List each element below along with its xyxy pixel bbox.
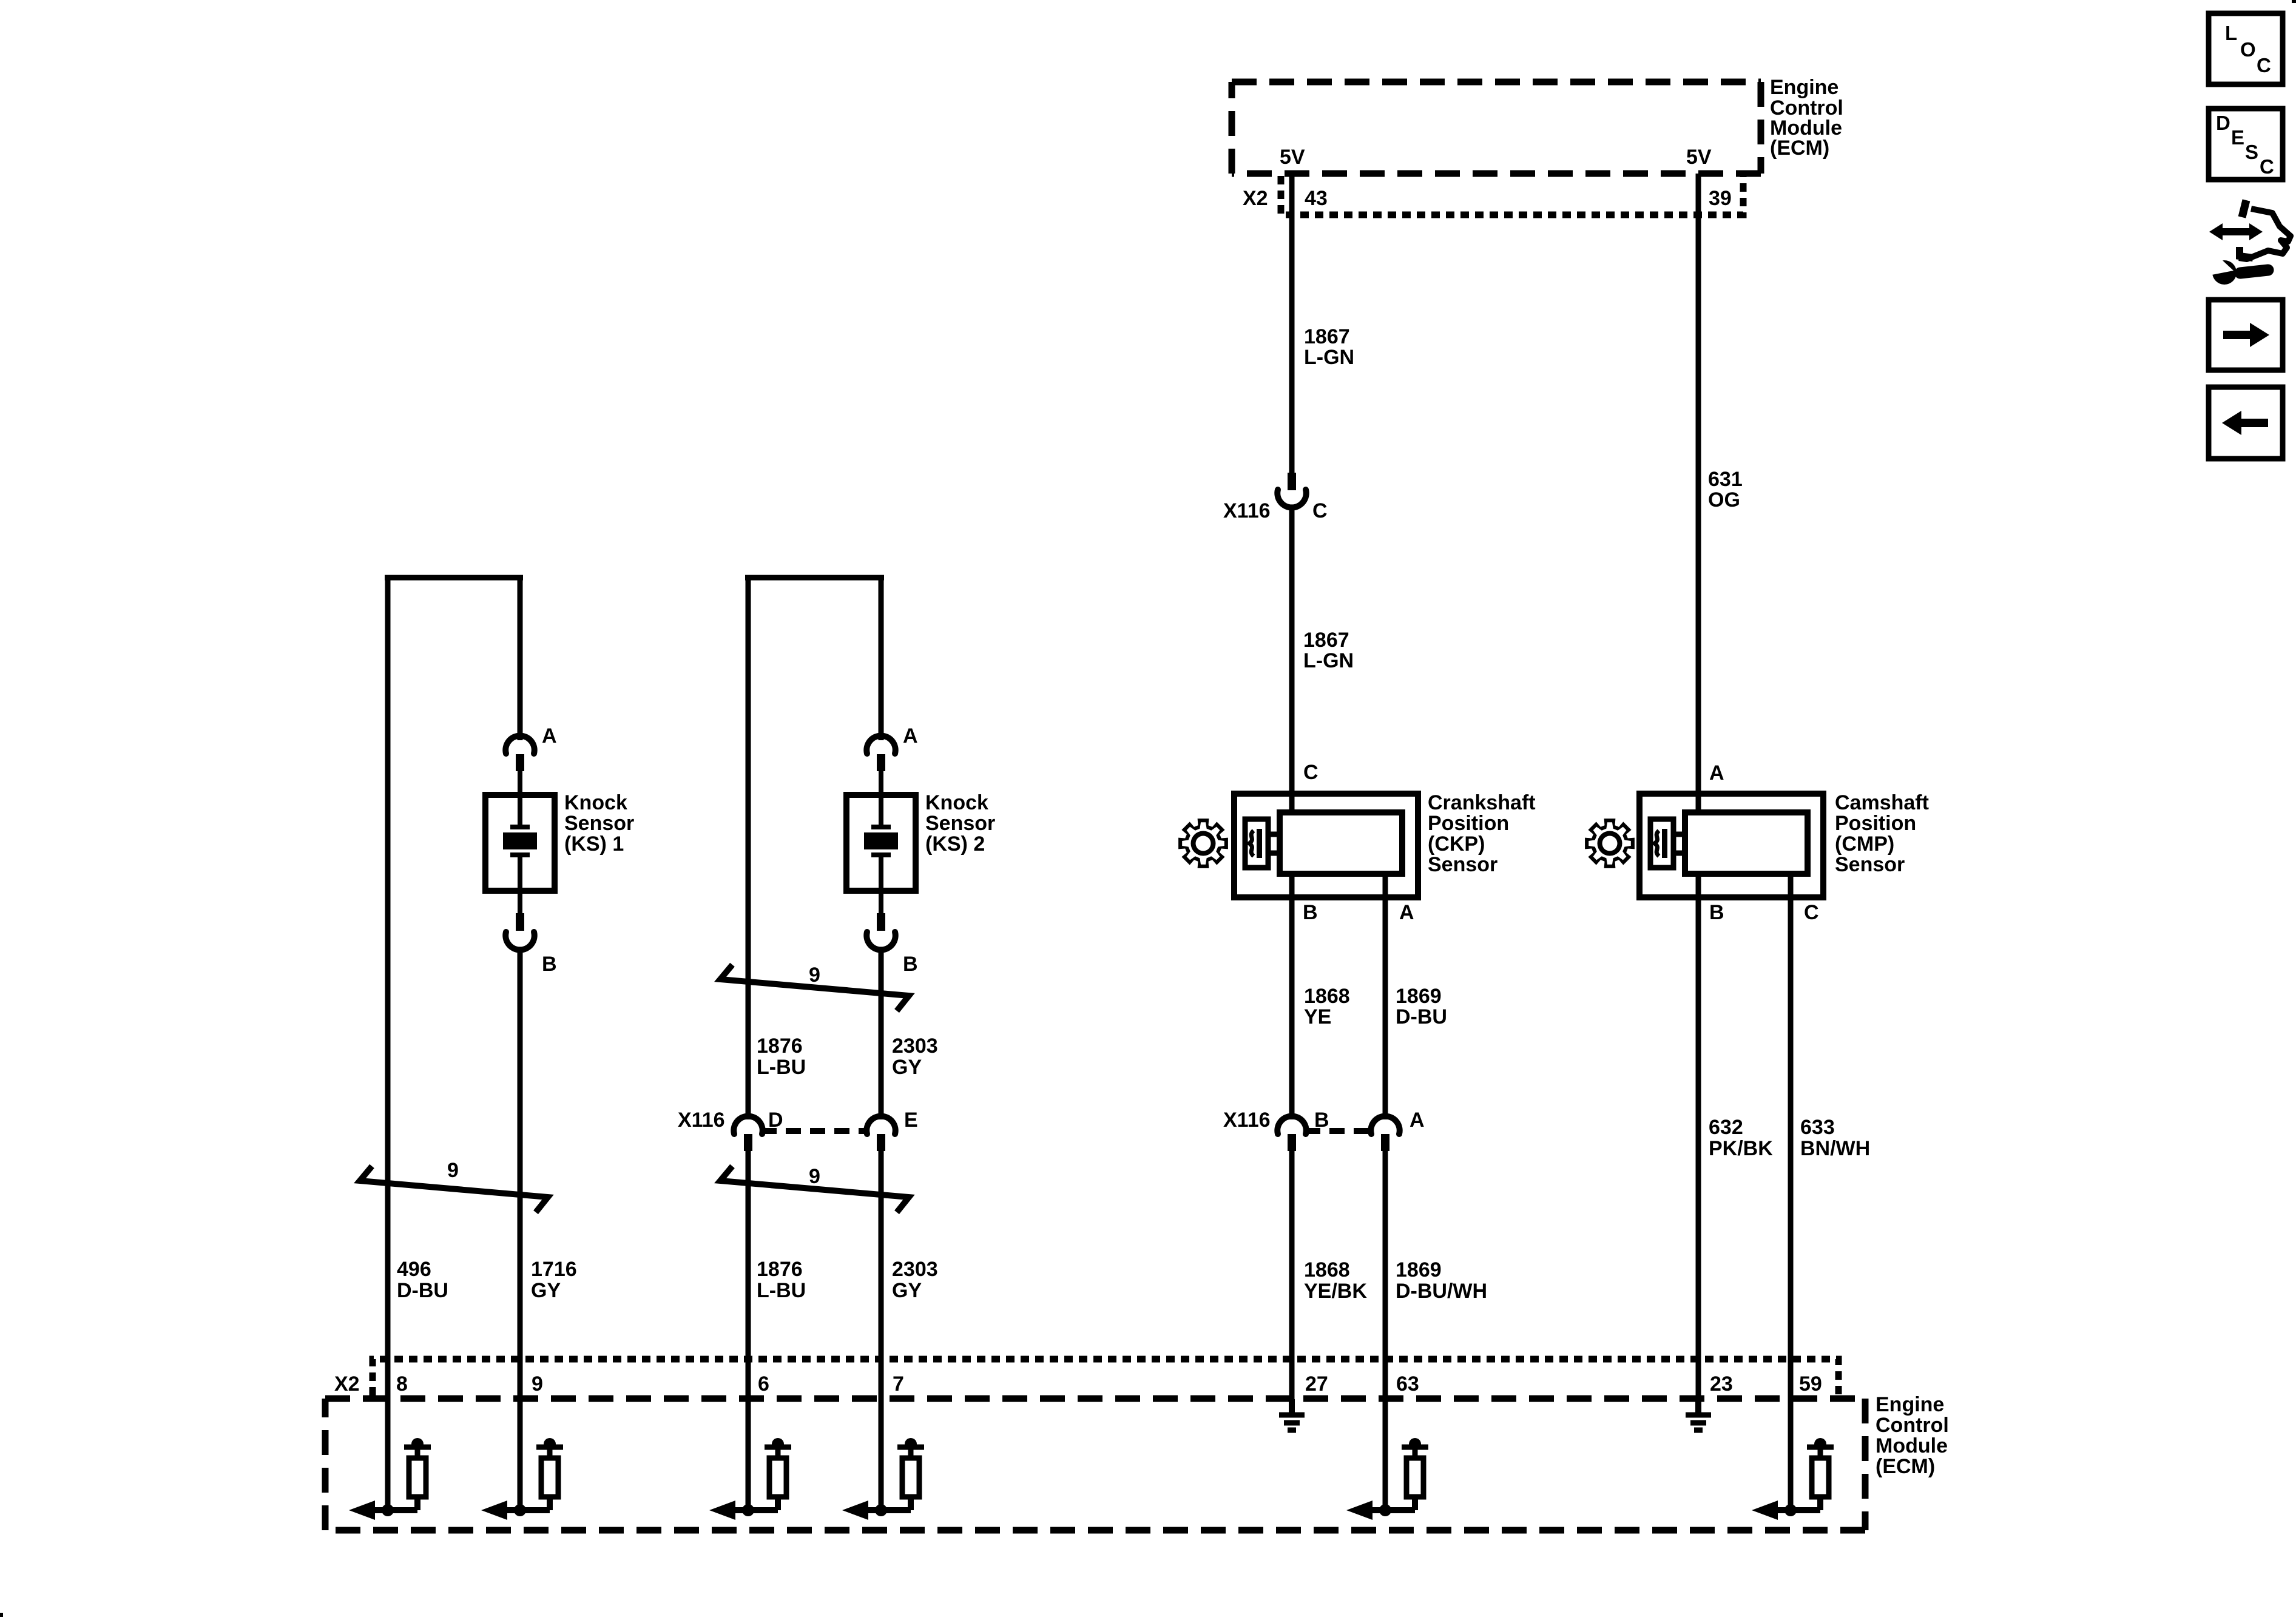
ECM internal resistor + signal arrow (pin 9)	[481, 1438, 563, 1520]
gear icon (CKP reluctor wheel)	[1178, 819, 1228, 868]
svg-text:496: 496	[397, 1258, 431, 1281]
svg-text:39: 39	[1709, 187, 1732, 210]
inline connector X116 pin D (male stub)	[744, 1134, 752, 1151]
knock sensor KS2	[846, 795, 916, 891]
label 2303 GY (lower)	[892, 1258, 938, 1302]
svg-text:E: E	[904, 1109, 918, 1132]
connector KS1 pin B (male stub)	[518, 891, 522, 913]
wire 632 PK/BK from CMP pin B to ECM pin 23	[1696, 874, 1701, 1399]
inline connector X116 pin C (male stub)	[1288, 473, 1296, 490]
svg-text:23: 23	[1710, 1372, 1733, 1396]
svg-text:1868: 1868	[1304, 1258, 1350, 1281]
ECM bottom dashed box (Engine Control Module)	[325, 1399, 1865, 1530]
wire 2303 GY from KS2 pin B	[879, 949, 884, 1119]
svg-text:Knock: Knock	[925, 791, 988, 814]
ground (ECM pin 23)	[1686, 1399, 1711, 1430]
wire into KS1	[518, 771, 522, 795]
svg-text:632: 632	[1709, 1116, 1743, 1139]
wire 631 OG from ECM pin 39 to CMP	[1696, 174, 1701, 812]
svg-text:C: C	[1312, 499, 1328, 522]
label Knock Sensor (KS) 2	[925, 791, 995, 856]
svg-text:X116: X116	[678, 1109, 725, 1132]
inline connector X116 pin E (male stub)	[877, 1134, 885, 1151]
svg-text:1867: 1867	[1304, 325, 1350, 348]
svg-text:1867: 1867	[1303, 629, 1349, 652]
svg-text:1869: 1869	[1396, 985, 1442, 1008]
svg-text:59: 59	[1799, 1372, 1822, 1396]
svg-text:Sensor: Sensor	[1428, 853, 1497, 876]
inline connector X116 pin B (male stub)	[1288, 1134, 1296, 1151]
wire KS2 loop right to pin A	[879, 578, 884, 740]
svg-text:5V: 5V	[1280, 146, 1305, 169]
wire 1869 D-BU/WH to ECM pin 63	[1383, 1151, 1388, 1510]
svg-text:Sensor: Sensor	[925, 812, 995, 835]
svg-text:(KS) 1: (KS) 1	[564, 832, 624, 856]
label 1716 GY	[531, 1258, 577, 1302]
label 1867 L-GN (lower)	[1303, 629, 1354, 672]
svg-text:B: B	[1314, 1109, 1329, 1132]
svg-text:9: 9	[532, 1372, 543, 1396]
inline connector X116 pin A (female dome)	[1371, 1116, 1399, 1134]
svg-text:6: 6	[758, 1372, 769, 1396]
svg-text:43: 43	[1305, 187, 1328, 210]
svg-text:Sensor: Sensor	[564, 812, 634, 835]
wire 1867 L-GN from X116 C to CKP sensor	[1289, 507, 1295, 812]
twisted pair symbol KS2 upper	[720, 965, 909, 1011]
svg-text:5V: 5V	[1686, 146, 1712, 169]
svg-text:1868: 1868	[1304, 985, 1350, 1008]
svg-text:L-BU: L-BU	[757, 1279, 806, 1302]
label 1868 YE/BK	[1304, 1258, 1367, 1303]
svg-text:1876: 1876	[757, 1035, 803, 1058]
connector X2 pin row (bottom)	[373, 1359, 1838, 1396]
corner mark bottom-left	[0, 1613, 3, 1617]
svg-text:Sensor: Sensor	[1835, 853, 1905, 876]
svg-text:27: 27	[1305, 1372, 1328, 1396]
inline connector X116 pin C (female cup)	[1277, 490, 1306, 507]
svg-text:YE: YE	[1304, 1005, 1331, 1028]
svg-text:D-BU/WH: D-BU/WH	[1396, 1280, 1487, 1303]
svg-text:E: E	[2231, 126, 2244, 149]
ECM internal resistor + signal arrow (pin 7)	[842, 1438, 924, 1520]
wire 1876 L-BU (KS2 loop left)	[746, 578, 751, 1119]
ECM internal resistor + signal arrow (pin 59)	[1752, 1438, 1834, 1520]
svg-text:YE/BK: YE/BK	[1304, 1280, 1367, 1303]
svg-text:1716: 1716	[531, 1258, 577, 1281]
svg-text:1869: 1869	[1396, 1258, 1442, 1281]
label 1869 D-BU/WH	[1396, 1258, 1487, 1303]
svg-text:S: S	[2245, 141, 2258, 163]
knock sensor KS1	[485, 795, 555, 891]
icon hand/adjust with wrench	[2209, 200, 2291, 285]
svg-text:1876: 1876	[757, 1258, 803, 1281]
label 1867 L-GN (upper)	[1304, 325, 1354, 369]
label 1876 L-BU (upper)	[757, 1035, 806, 1079]
wire KS1 loop right to pin A	[518, 578, 523, 740]
inline connector X116 pin D (female dome)	[734, 1116, 762, 1134]
svg-text:Module: Module	[1876, 1434, 1948, 1457]
connector X116 dashed link B-A	[1305, 1128, 1372, 1134]
svg-text:Crankshaft: Crankshaft	[1428, 791, 1536, 814]
icon box DESC	[2209, 109, 2283, 180]
svg-text:(CMP): (CMP)	[1835, 832, 1894, 856]
svg-text:X116: X116	[1223, 499, 1271, 522]
twisted pair symbol KS2 lower	[720, 1166, 909, 1212]
svg-text:Position: Position	[1428, 812, 1509, 835]
ECM top dashed box (Engine Control Module)	[1232, 82, 1761, 174]
svg-text:B: B	[1709, 901, 1724, 924]
label Knock Sensor (KS) 1	[564, 791, 634, 856]
svg-text:(ECM): (ECM)	[1876, 1455, 1935, 1478]
svg-text:8: 8	[396, 1372, 408, 1396]
svg-text:X116: X116	[1223, 1109, 1271, 1132]
svg-text:633: 633	[1800, 1116, 1835, 1139]
svg-text:D-BU: D-BU	[397, 1279, 448, 1302]
ECM internal resistor + signal arrow (pin 8)	[349, 1438, 431, 1520]
svg-text:L-GN: L-GN	[1303, 649, 1354, 672]
corner mark top-right	[2292, 0, 2296, 3]
connector X116 dashed link D-E	[761, 1128, 868, 1134]
svg-text:7: 7	[893, 1372, 904, 1396]
svg-text:A: A	[542, 724, 557, 748]
connector X2 pin row (top)	[1281, 176, 1743, 215]
svg-text:GY: GY	[531, 1279, 561, 1302]
svg-text:Camshaft: Camshaft	[1835, 791, 1929, 814]
svg-text:D-BU: D-BU	[1396, 1005, 1447, 1028]
inline connector X116 pin E (female dome)	[866, 1116, 895, 1134]
svg-text:D: D	[768, 1109, 783, 1132]
label 1868 YE	[1304, 985, 1350, 1028]
label Engine Control Module (ECM) top	[1770, 76, 1843, 160]
inline connector X116 pin B (female dome)	[1277, 1116, 1306, 1134]
twisted pair symbol KS1	[360, 1166, 548, 1212]
connector KS1 pin A (female dome)	[505, 736, 534, 754]
svg-text:9: 9	[809, 964, 820, 987]
wire 1868 YE/BK to ECM pin 27	[1289, 1151, 1295, 1399]
svg-text:GY: GY	[892, 1279, 922, 1302]
svg-text:L-GN: L-GN	[1304, 346, 1354, 369]
svg-text:Position: Position	[1835, 812, 1916, 835]
svg-text:631: 631	[1708, 468, 1743, 491]
connector KS1 pin B (female cup)	[505, 932, 534, 950]
svg-text:9: 9	[447, 1159, 459, 1182]
svg-text:Knock: Knock	[564, 791, 627, 814]
svg-text:63: 63	[1396, 1372, 1419, 1396]
svg-text:C: C	[2257, 54, 2271, 76]
icon box LOC	[2209, 13, 2283, 84]
svg-text:X2: X2	[334, 1372, 360, 1396]
label Camshaft Position (CMP) Sensor	[1835, 791, 1929, 876]
label 631 OG	[1708, 468, 1743, 511]
svg-text:D: D	[2216, 112, 2230, 134]
svg-text:L-BU: L-BU	[757, 1056, 806, 1079]
camshaft position sensor CMP body	[1639, 794, 1823, 897]
ECM internal resistor + signal arrow (pin 6)	[709, 1438, 791, 1520]
icon box forward arrow	[2209, 300, 2283, 370]
wire 1868 YE from CKP pin B	[1289, 874, 1295, 1119]
label 496 D-BU	[397, 1258, 448, 1302]
connector KS1 pin A (male stub)	[516, 754, 524, 771]
gear icon (CMP reluctor wheel)	[1585, 819, 1635, 868]
label 1876 L-BU (lower)	[757, 1258, 806, 1302]
svg-text:B: B	[903, 953, 918, 976]
svg-text:Control: Control	[1876, 1414, 1949, 1437]
connector KS2 pin A (male stub)	[877, 754, 885, 771]
wire 633 BN/WH from CMP pin C to ECM pin 59	[1788, 874, 1794, 1510]
svg-text:BN/WH: BN/WH	[1800, 1137, 1870, 1160]
svg-text:A: A	[1709, 761, 1724, 785]
wire 2303 GY to ECM pin 7	[879, 1151, 884, 1510]
wire into KS2	[879, 771, 883, 795]
svg-text:A: A	[903, 724, 918, 748]
wire 1716 GY from KS1 pin B to ECM pin 9	[518, 949, 523, 1510]
svg-text:A: A	[1399, 901, 1414, 924]
icon box back arrow	[2209, 387, 2283, 459]
svg-text:9: 9	[809, 1165, 820, 1188]
svg-text:Engine: Engine	[1770, 76, 1838, 99]
connector KS2 pin B (female cup)	[866, 932, 895, 950]
svg-text:GY: GY	[892, 1056, 922, 1079]
svg-text:C: C	[2260, 155, 2274, 178]
connector KS2 pin B (male stub)	[879, 891, 883, 913]
label 633 BN/WH	[1800, 1116, 1870, 1160]
inline connector X116 pin A (male stub)	[1381, 1134, 1389, 1151]
svg-text:O: O	[2240, 38, 2256, 61]
svg-text:2303: 2303	[892, 1258, 938, 1281]
wire 1869 D-BU from CKP pin A	[1383, 874, 1388, 1119]
label 2303 GY (upper)	[892, 1035, 938, 1079]
label Crankshaft Position (CKP) Sensor	[1428, 791, 1536, 876]
svg-text:(ECM): (ECM)	[1770, 137, 1829, 160]
ECM internal resistor + signal arrow (pin 63)	[1346, 1438, 1428, 1520]
svg-text:Engine: Engine	[1876, 1393, 1944, 1416]
wire 1876 L-BU to ECM pin 6	[746, 1151, 751, 1510]
svg-text:X2: X2	[1243, 187, 1268, 210]
svg-text:2303: 2303	[892, 1035, 938, 1058]
connector KS2 pin A (female dome)	[866, 736, 895, 754]
svg-text:PK/BK: PK/BK	[1709, 1137, 1773, 1160]
wire 496 D-BU (KS1 loop left) to ECM pin 8	[385, 578, 391, 1510]
svg-text:(KS) 2: (KS) 2	[925, 832, 985, 856]
label Engine Control Module (ECM) bottom	[1876, 1393, 1949, 1478]
svg-text:B: B	[542, 953, 557, 976]
label 632 PK/BK	[1709, 1116, 1773, 1160]
wire 1867 L-GN from ECM pin 43 to X116 C	[1289, 174, 1295, 473]
svg-text:OG: OG	[1708, 488, 1740, 511]
svg-text:A: A	[1410, 1109, 1425, 1132]
svg-text:C: C	[1303, 761, 1319, 784]
svg-text:L: L	[2225, 22, 2237, 44]
svg-text:B: B	[1303, 901, 1318, 924]
svg-text:(CKP): (CKP)	[1428, 832, 1485, 856]
label 1869 D-BU	[1396, 985, 1447, 1028]
ground (ECM pin 27)	[1279, 1399, 1305, 1430]
crankshaft position sensor CKP body	[1234, 794, 1418, 897]
svg-text:C: C	[1804, 901, 1819, 924]
